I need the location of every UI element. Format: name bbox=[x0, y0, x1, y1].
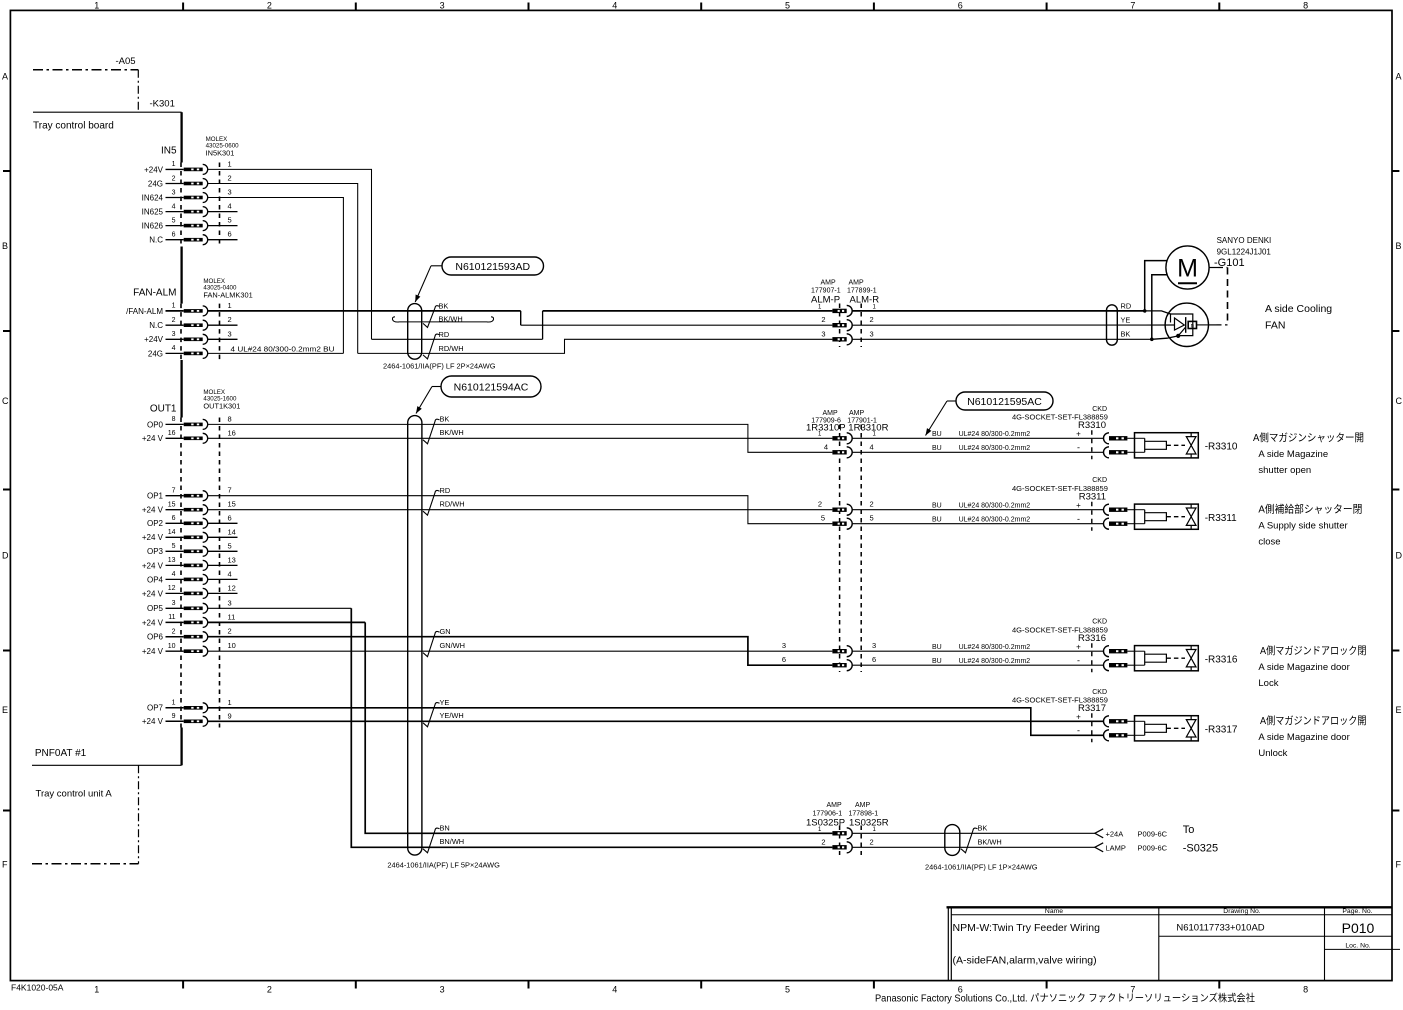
svg-text:OP5: OP5 bbox=[147, 604, 164, 613]
svg-text:UL#24 80/300-0.2mm2: UL#24 80/300-0.2mm2 bbox=[959, 431, 1031, 438]
svg-text:1: 1 bbox=[94, 1, 99, 11]
wire ALM-R pin1 RD to fan bbox=[852, 311, 1170, 314]
svg-text:+: + bbox=[1076, 501, 1081, 510]
solenoid valve R3316 bbox=[1012, 619, 1238, 673]
svg-text:+24 V: +24 V bbox=[142, 506, 164, 515]
svg-text:11: 11 bbox=[228, 612, 236, 621]
footer company name bbox=[875, 992, 1255, 1005]
connector OUT1K301 pin 11 bbox=[142, 612, 235, 627]
svg-text:B: B bbox=[2, 241, 8, 251]
wire OUT1 stub y579.4 bbox=[208, 578, 238, 580]
svg-text:+24 V: +24 V bbox=[142, 533, 164, 542]
svg-text:UL#24 80/300-0.2mm2: UL#24 80/300-0.2mm2 bbox=[959, 445, 1031, 452]
fan speed sensor bbox=[1165, 303, 1209, 346]
svg-text:2: 2 bbox=[172, 317, 176, 324]
cable N610121594AC oval bbox=[387, 416, 500, 870]
svg-text:RD/WH: RD/WH bbox=[440, 500, 465, 509]
connector IN5K301 pin 2 bbox=[148, 174, 232, 189]
svg-text:NPM-W:Twin Try Feeder Wiring: NPM-W:Twin Try Feeder Wiring bbox=[953, 922, 1101, 934]
wire ALM-R pin2 YE to fan sensor bbox=[852, 324, 1174, 326]
svg-text:A側マガジンドアロック開: A側マガジンドアロック開 bbox=[1260, 714, 1367, 727]
svg-text:E: E bbox=[2, 705, 8, 715]
svg-text:4: 4 bbox=[870, 442, 874, 451]
svg-text:Panasonic Factory Solutions Co: Panasonic Factory Solutions Co.,Ltd. パナソ… bbox=[875, 992, 1255, 1005]
wire arrows to -S0325 bbox=[1095, 824, 1218, 855]
svg-text:BK: BK bbox=[440, 415, 450, 424]
svg-text:C: C bbox=[1396, 396, 1403, 406]
svg-text:UL#24 80/300-0.2mm2: UL#24 80/300-0.2mm2 bbox=[959, 517, 1031, 524]
svg-text:2: 2 bbox=[821, 315, 825, 324]
cable N610121593AD oval bbox=[383, 304, 496, 371]
svg-text:OP6: OP6 bbox=[147, 633, 164, 642]
wire IN5 pin4 stub bbox=[208, 211, 238, 213]
connector OUT1K301 pin 7 bbox=[147, 486, 232, 501]
wire BU to valve socket rows 438.3 452.3 bbox=[852, 431, 1103, 452]
svg-text:2: 2 bbox=[870, 500, 874, 509]
wire colour labels GN GN/WH bbox=[423, 627, 465, 657]
svg-text:OUT1K301: OUT1K301 bbox=[203, 402, 240, 411]
svg-text:+: + bbox=[1076, 713, 1081, 722]
svg-text:N.C: N.C bbox=[149, 321, 163, 330]
svg-text:7: 7 bbox=[1130, 1, 1135, 11]
svg-text:4: 4 bbox=[172, 345, 176, 352]
svg-text:Tray control board: Tray control board bbox=[33, 121, 114, 132]
svg-text:OP2: OP2 bbox=[147, 519, 164, 528]
svg-text:-R3311: -R3311 bbox=[1205, 513, 1237, 524]
connector 1R3310 pin 6 bbox=[832, 660, 852, 671]
connector ALM pin 2 bbox=[832, 320, 852, 331]
svg-text:RD: RD bbox=[1121, 302, 1132, 311]
unit boundary Tray control unit A (dash-dot) bbox=[32, 765, 139, 863]
svg-text:N610121594AC: N610121594AC bbox=[454, 381, 529, 393]
svg-text:+24 V: +24 V bbox=[142, 561, 164, 570]
connector 1R3310 pin 5 bbox=[832, 518, 852, 529]
svg-text:24G: 24G bbox=[148, 349, 163, 358]
wire colour labels BK BK/WH bbox=[423, 415, 464, 444]
svg-text:-: - bbox=[1077, 726, 1080, 736]
svg-text:FAN: FAN bbox=[1265, 320, 1285, 332]
svg-text:6: 6 bbox=[172, 515, 176, 522]
svg-text:6: 6 bbox=[958, 1, 963, 11]
svg-text:E: E bbox=[1396, 705, 1402, 715]
svg-text:-: - bbox=[1077, 443, 1080, 453]
svg-text:UL#24 80/300-0.2mm2: UL#24 80/300-0.2mm2 bbox=[959, 503, 1031, 510]
svg-text:BU: BU bbox=[932, 445, 942, 452]
svg-text:-: - bbox=[1077, 655, 1080, 665]
wire RD/WH net to ALM-P pin3 bbox=[358, 339, 833, 353]
svg-text:-G101: -G101 bbox=[1214, 257, 1245, 269]
svg-text:A側マガジンドアロック閉: A側マガジンドアロック閉 bbox=[1260, 644, 1367, 657]
connector OUT1K301 pin 5 bbox=[147, 541, 232, 556]
svg-text:N610117733+010AD: N610117733+010AD bbox=[1176, 923, 1264, 934]
svg-text:12: 12 bbox=[228, 583, 236, 592]
svg-text:A: A bbox=[1396, 72, 1402, 82]
wire BK/WH unused with hooked ends bbox=[392, 317, 493, 322]
wire colour labels YE YE/WH bbox=[423, 698, 464, 727]
svg-text:GN/WH: GN/WH bbox=[440, 641, 465, 650]
svg-text:1: 1 bbox=[172, 700, 176, 707]
svg-text:N610121595AC: N610121595AC bbox=[967, 396, 1042, 408]
svg-text:5: 5 bbox=[870, 514, 874, 523]
svg-text:BU: BU bbox=[932, 644, 942, 651]
svg-text:6: 6 bbox=[872, 655, 876, 664]
svg-text:OUT1: OUT1 bbox=[150, 404, 177, 415]
connector FAN-ALMK301 pin 2 bbox=[149, 317, 207, 330]
wire colour labels BN BN/WH bbox=[423, 823, 464, 852]
svg-text:BU: BU bbox=[932, 517, 942, 524]
wire FAN-ALM pin4 24G BU bbox=[208, 352, 344, 354]
wire 9 YE/WH to valve R3317 plus bbox=[208, 720, 1104, 722]
svg-text:7: 7 bbox=[172, 488, 176, 495]
svg-text:/FAN-ALM: /FAN-ALM bbox=[126, 307, 163, 316]
svg-text:4 UL#24 80/300-0.2mm2 BU: 4 UL#24 80/300-0.2mm2 BU bbox=[231, 345, 335, 354]
svg-text:3: 3 bbox=[228, 598, 232, 607]
connector OUT1K301 pin 16 bbox=[142, 428, 236, 443]
svg-text:3: 3 bbox=[440, 1, 445, 11]
svg-text:+24 V: +24 V bbox=[142, 717, 164, 726]
svg-text:+: + bbox=[1076, 642, 1081, 651]
svg-text:BN: BN bbox=[440, 823, 450, 832]
cable 1P oval bbox=[925, 825, 1038, 872]
svg-text:A Supply side shutter: A Supply side shutter bbox=[1258, 520, 1347, 531]
svg-text:B: B bbox=[1396, 241, 1402, 251]
svg-text:YE: YE bbox=[440, 698, 450, 707]
svg-text:2: 2 bbox=[172, 175, 176, 182]
svg-text:BK/WH: BK/WH bbox=[439, 315, 463, 324]
svg-text:IN5K301: IN5K301 bbox=[206, 148, 235, 157]
svg-text:+24V: +24V bbox=[144, 335, 164, 344]
svg-text:-: - bbox=[1077, 514, 1080, 524]
connector FAN-ALMK301 pin 3 bbox=[144, 331, 208, 344]
svg-text:2: 2 bbox=[267, 985, 272, 995]
svg-text:1: 1 bbox=[228, 698, 232, 707]
svg-text:OP3: OP3 bbox=[147, 547, 164, 556]
svg-text:1: 1 bbox=[228, 159, 232, 168]
solenoid valve R3317 bbox=[1012, 689, 1238, 743]
svg-text:16: 16 bbox=[168, 430, 176, 437]
connector OUT1K301 (MOLEX 43025-1600) bbox=[142, 389, 241, 728]
connector ALM-P / ALM-R (AMP 177907-1 / 177899-1) bbox=[811, 280, 879, 348]
svg-text:1: 1 bbox=[94, 985, 99, 995]
svg-text:6: 6 bbox=[228, 513, 232, 522]
svg-text:1R3310R: 1R3310R bbox=[848, 423, 888, 434]
fan unit -G101 dashed boundary bbox=[1209, 268, 1228, 325]
svg-text:3: 3 bbox=[872, 641, 876, 650]
svg-text:F: F bbox=[1396, 860, 1402, 870]
svg-text:4: 4 bbox=[172, 571, 176, 578]
svg-text:1: 1 bbox=[172, 303, 176, 310]
svg-text:4: 4 bbox=[824, 442, 828, 451]
cable oval at fan bbox=[1107, 305, 1118, 345]
svg-text:+24 V: +24 V bbox=[142, 618, 164, 627]
label for valve R3316 bbox=[1258, 644, 1366, 689]
svg-text:6: 6 bbox=[228, 230, 232, 239]
svg-text:RD: RD bbox=[439, 330, 450, 339]
connector IN5K301 pin 3 bbox=[142, 188, 232, 203]
svg-text:3: 3 bbox=[870, 329, 874, 338]
connector IN5K301 pin 4 bbox=[142, 202, 232, 217]
svg-text:14: 14 bbox=[168, 529, 176, 536]
svg-text:Tray control unit A: Tray control unit A bbox=[36, 789, 113, 800]
part balloon N610121595AC bbox=[926, 392, 1054, 436]
svg-text:P010: P010 bbox=[1342, 920, 1375, 936]
svg-text:2: 2 bbox=[228, 627, 232, 636]
svg-text:11: 11 bbox=[168, 614, 175, 621]
wire OP1 RD to valve R3311 minus bbox=[208, 496, 833, 524]
svg-text:-R3317: -R3317 bbox=[1205, 725, 1238, 736]
connector OUT1K301 pin 4 bbox=[147, 569, 232, 584]
wire 11 +24V to BN bbox=[208, 622, 833, 833]
title block bbox=[947, 907, 1401, 980]
connector IN5K301 pin 1 bbox=[144, 159, 232, 174]
svg-text:OP0: OP0 bbox=[147, 420, 164, 429]
wire OUT1 stub y537.3 bbox=[208, 536, 238, 538]
svg-text:FAN-ALM: FAN-ALM bbox=[133, 288, 176, 299]
svg-text:3: 3 bbox=[172, 600, 176, 607]
wire colour labels BK BK/WH bbox=[423, 302, 463, 328]
svg-text:+24V: +24V bbox=[144, 165, 164, 174]
svg-text:8: 8 bbox=[1303, 985, 1308, 995]
fan labels SANYO DENKI -G101 bbox=[1214, 236, 1271, 269]
wire colour labels RD RD/WH bbox=[423, 486, 465, 515]
svg-text:AMP: AMP bbox=[855, 802, 871, 809]
svg-text:(A-sideFAN,alarm,valve wiring): (A-sideFAN,alarm,valve wiring) bbox=[953, 955, 1097, 967]
svg-text:177906-1: 177906-1 bbox=[813, 810, 843, 817]
svg-text:4: 4 bbox=[228, 202, 232, 211]
wire BK/WH to LAMP bbox=[852, 846, 1095, 848]
svg-text:F4K1020-05A: F4K1020-05A bbox=[11, 983, 64, 993]
wire RD net to ALM-P pin1 bbox=[372, 311, 833, 339]
part balloon N610121594AC bbox=[416, 376, 541, 414]
svg-text:AMP: AMP bbox=[849, 280, 865, 287]
solenoid valve R3311 bbox=[1012, 477, 1237, 531]
svg-text:9: 9 bbox=[172, 713, 176, 720]
svg-text:ALM-P: ALM-P bbox=[811, 295, 840, 306]
svg-text:+: + bbox=[1076, 430, 1081, 439]
svg-text:BK/WH: BK/WH bbox=[440, 428, 464, 437]
connector 1R3310 pin 2 bbox=[832, 504, 852, 515]
svg-text:close: close bbox=[1258, 537, 1280, 548]
svg-text:BK: BK bbox=[439, 302, 449, 311]
svg-text:BK: BK bbox=[1121, 330, 1131, 339]
svg-text:2: 2 bbox=[870, 315, 874, 324]
connector ALM pin 3 bbox=[832, 334, 852, 345]
svg-text:Lock: Lock bbox=[1258, 678, 1278, 689]
svg-text:P009-6C: P009-6C bbox=[1138, 843, 1168, 852]
svg-text:RD: RD bbox=[440, 486, 451, 495]
part balloon N610121593AD bbox=[415, 257, 543, 302]
wire OP5 to BN/WH bbox=[208, 608, 833, 847]
svg-text:24G: 24G bbox=[148, 179, 163, 188]
wire IN5 pin1 +24V to RD net bbox=[208, 169, 372, 339]
svg-text:-R3316: -R3316 bbox=[1205, 655, 1238, 666]
wire BU to valve socket rows 651.2 665.2 bbox=[852, 644, 1103, 665]
svg-text:2464-1061/IIA(PF) LF 1P×24AWG: 2464-1061/IIA(PF) LF 1P×24AWG bbox=[925, 863, 1038, 872]
connector OUT1K301 pin 10 bbox=[142, 641, 236, 656]
board PNF0AT #1 bottom edge bbox=[32, 748, 182, 765]
svg-text:BK: BK bbox=[978, 823, 988, 832]
svg-text:+24 V: +24 V bbox=[142, 434, 164, 443]
svg-text:A側マガジンシャッター開: A側マガジンシャッター開 bbox=[1253, 431, 1364, 444]
svg-text:2: 2 bbox=[818, 500, 822, 509]
solenoid valve R3310 bbox=[1012, 406, 1238, 460]
svg-text:shutter open: shutter open bbox=[1258, 465, 1311, 476]
svg-text:UL#24 80/300-0.2mm2: UL#24 80/300-0.2mm2 bbox=[959, 644, 1031, 651]
connector IN5K301 pin 5 bbox=[142, 216, 232, 231]
wire OUT1 stub y593.4 bbox=[208, 592, 238, 594]
svg-text:2464-1061/IIA(PF) LF 5P×24AWG: 2464-1061/IIA(PF) LF 5P×24AWG bbox=[387, 861, 500, 870]
unit boundary -A05 (dash-dot) bbox=[33, 56, 138, 112]
svg-text:5: 5 bbox=[785, 985, 790, 995]
svg-text:6: 6 bbox=[782, 655, 786, 664]
svg-text:2: 2 bbox=[870, 837, 874, 846]
svg-text:YE: YE bbox=[1121, 316, 1131, 325]
svg-text:+24 V: +24 V bbox=[142, 647, 164, 656]
svg-text:RD/WH: RD/WH bbox=[439, 344, 464, 353]
svg-text:4: 4 bbox=[228, 569, 232, 578]
connector 1S0325 pin 2 bbox=[832, 842, 852, 853]
connector OUT1K301 pin 9 bbox=[142, 711, 232, 726]
svg-text:A: A bbox=[2, 72, 8, 82]
svg-text:177898-1: 177898-1 bbox=[849, 810, 879, 817]
svg-text:4: 4 bbox=[612, 985, 617, 995]
connector OUT1K301 pin 15 bbox=[142, 500, 236, 515]
svg-text:7: 7 bbox=[228, 486, 232, 495]
svg-text:AMP: AMP bbox=[827, 802, 843, 809]
svg-text:N.C: N.C bbox=[149, 236, 163, 245]
svg-text:BU: BU bbox=[932, 431, 942, 438]
connector 1S0325P / 1S0325R (AMP 177906-1 / 177898-1) bbox=[806, 802, 889, 855]
svg-text:A side Cooling: A side Cooling bbox=[1265, 303, 1332, 315]
svg-text:15: 15 bbox=[168, 502, 176, 509]
connector 1R3310 pin 3 bbox=[832, 646, 852, 657]
svg-text:Name: Name bbox=[1045, 908, 1063, 915]
wire 10 GN/WH to valve R3316 plus bbox=[208, 650, 833, 652]
svg-text:Page. No.: Page. No. bbox=[1342, 908, 1372, 915]
svg-text:13: 13 bbox=[168, 557, 176, 564]
connector OUT1K301 pin 14 bbox=[142, 527, 236, 542]
svg-text:5: 5 bbox=[228, 216, 232, 225]
svg-text:D: D bbox=[2, 551, 9, 561]
label for valve R3317 bbox=[1258, 714, 1366, 759]
connector OUT1K301 pin 6 bbox=[147, 513, 232, 528]
svg-text:AMP: AMP bbox=[821, 280, 837, 287]
svg-text:3: 3 bbox=[172, 331, 176, 338]
connector FAN-ALMK301 pin 1 bbox=[126, 303, 208, 316]
connector 1R3310 pin 1 bbox=[832, 433, 852, 444]
svg-text:12: 12 bbox=[168, 585, 176, 592]
svg-text:IN625: IN625 bbox=[142, 208, 164, 217]
wire OP7 YE to valve R3317 minus bbox=[208, 708, 1104, 736]
node junction RD branch bbox=[1143, 309, 1147, 313]
svg-text:FAN-ALMK301: FAN-ALMK301 bbox=[203, 291, 252, 300]
node junction BK branch bbox=[1150, 338, 1154, 342]
svg-text:13: 13 bbox=[228, 555, 236, 564]
svg-text:-A05: -A05 bbox=[116, 56, 136, 67]
svg-text:GN: GN bbox=[440, 627, 451, 636]
svg-text:YE/WH: YE/WH bbox=[440, 711, 464, 720]
svg-text:5: 5 bbox=[228, 541, 232, 550]
svg-text:8: 8 bbox=[172, 416, 176, 423]
connector IN5K301 pin 6 bbox=[149, 230, 231, 245]
svg-text:Unlock: Unlock bbox=[1258, 748, 1287, 759]
connector OUT1K301 pin 13 bbox=[142, 555, 236, 570]
svg-text:IN5: IN5 bbox=[161, 146, 177, 157]
svg-text:177907-1: 177907-1 bbox=[811, 288, 841, 295]
svg-text:BN/WH: BN/WH bbox=[440, 837, 465, 846]
wire colour labels BK BK/WH bottom bbox=[961, 823, 1002, 852]
wire /FAN-ALM BK to ALM-P pin2 bbox=[208, 311, 833, 325]
svg-text:-R3310: -R3310 bbox=[1205, 442, 1238, 453]
wire colour labels RD RD/WH bbox=[423, 330, 464, 359]
svg-text:P009-6C: P009-6C bbox=[1138, 829, 1168, 838]
board -K301 outline bbox=[33, 99, 182, 766]
svg-text:C: C bbox=[2, 396, 9, 406]
wire FAN-ALM pin3 stub bbox=[208, 338, 238, 340]
svg-text:8: 8 bbox=[228, 414, 232, 423]
svg-text:15: 15 bbox=[228, 500, 236, 509]
wire ALM-R pin3 BK to fan bbox=[852, 336, 1178, 339]
svg-text:M: M bbox=[1177, 255, 1198, 283]
svg-text:n: n bbox=[1191, 324, 1194, 330]
svg-text:5: 5 bbox=[821, 514, 825, 523]
svg-text:OP1: OP1 bbox=[147, 492, 164, 501]
svg-text:A side Magazine: A side Magazine bbox=[1258, 449, 1328, 460]
svg-text:A side Magazine door: A side Magazine door bbox=[1258, 662, 1349, 673]
svg-text:3: 3 bbox=[821, 329, 825, 338]
svg-text:10: 10 bbox=[168, 643, 176, 650]
wire 16 BK/WH to valve R3310 plus bbox=[208, 437, 833, 439]
wire IN5 pin5 stub bbox=[208, 225, 238, 227]
svg-text:9GL1224J1J01: 9GL1224J1J01 bbox=[1217, 248, 1272, 257]
wire colour labels RD YE BK at fan bbox=[1121, 302, 1132, 339]
svg-text:R3317: R3317 bbox=[1078, 703, 1106, 714]
wire OUT1 stub y551.3 bbox=[208, 550, 238, 552]
connector ALM pin 1 bbox=[832, 305, 852, 316]
wire IN5 pin2 24G to RD/WH net bbox=[208, 184, 358, 354]
svg-text:6: 6 bbox=[172, 232, 176, 239]
svg-text:Loc. No.: Loc. No. bbox=[1345, 943, 1370, 950]
svg-text:OP4: OP4 bbox=[147, 575, 164, 584]
wire BK branch up to motor bbox=[1152, 275, 1168, 340]
svg-text:2: 2 bbox=[228, 315, 232, 324]
svg-text:+24A: +24A bbox=[1106, 829, 1124, 838]
svg-text:8: 8 bbox=[1303, 1, 1308, 11]
connector 1R3310 pin 4 bbox=[832, 447, 852, 458]
svg-text:4: 4 bbox=[172, 203, 176, 210]
svg-text:BU: BU bbox=[932, 658, 942, 665]
connector FAN-ALMK301 pin 4 bbox=[148, 345, 208, 358]
svg-text:IN626: IN626 bbox=[142, 222, 164, 231]
svg-text:14: 14 bbox=[228, 527, 236, 536]
wire OP6 GN to valve R3316 minus bbox=[208, 637, 833, 666]
svg-text:R3316: R3316 bbox=[1078, 633, 1106, 644]
wire FAN-ALM pin2 stub bbox=[208, 324, 238, 326]
label for valve R3311 bbox=[1258, 503, 1362, 548]
svg-text:1S0325R: 1S0325R bbox=[849, 817, 889, 828]
svg-text:To: To bbox=[1183, 824, 1195, 836]
svg-text:2: 2 bbox=[228, 174, 232, 183]
svg-text:5: 5 bbox=[785, 1, 790, 11]
svg-text:3: 3 bbox=[228, 329, 232, 338]
svg-text:BK/WH: BK/WH bbox=[978, 837, 1002, 846]
wire IN5 pin6 stub bbox=[208, 239, 238, 241]
wire BK to +24A bbox=[852, 832, 1095, 834]
connector OUT1K301 pin 3 bbox=[147, 598, 232, 613]
svg-text:A側補給部シャッター閉: A側補給部シャッター閉 bbox=[1258, 503, 1362, 516]
svg-text:N610121593AD: N610121593AD bbox=[455, 261, 530, 273]
wire OUT1 stub y523.3 bbox=[208, 522, 238, 524]
